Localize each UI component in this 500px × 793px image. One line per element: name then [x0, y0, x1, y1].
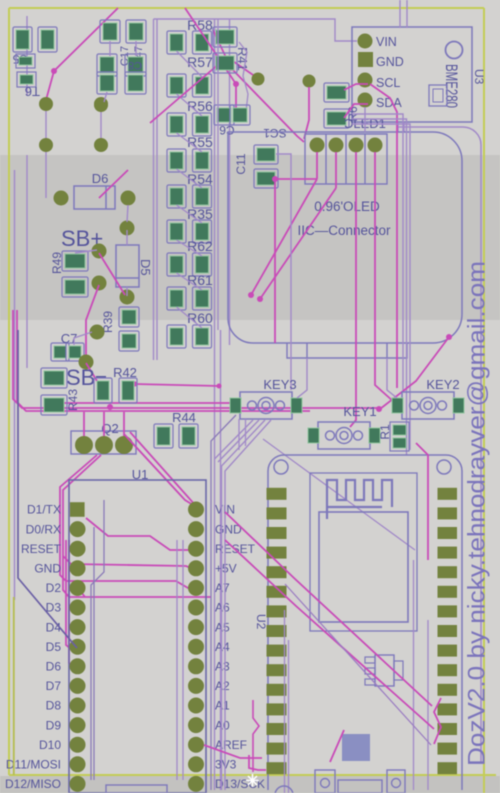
svg-text:R54: R54 — [187, 171, 213, 187]
wire — [335, 152, 337, 188]
wire — [45, 402, 230, 404]
wire — [63, 455, 211, 597]
svg-text:R61: R61 — [187, 272, 213, 288]
wire — [316, 152, 318, 179]
pin pad right D13/SCK — [188, 776, 204, 792]
board edge right — [483, 8, 485, 793]
pin GND — [358, 52, 404, 69]
resistor R1 — [378, 422, 409, 451]
wire — [275, 178, 317, 180]
wire — [260, 188, 336, 299]
svg-text:VIN: VIN — [376, 35, 397, 49]
capacitor C8 — [97, 54, 146, 94]
wire — [86, 285, 99, 360]
resistor R42 — [94, 365, 137, 403]
pin pad U2 left — [267, 527, 287, 539]
svg-text:R44: R44 — [172, 410, 196, 425]
connector hole — [387, 770, 405, 793]
svg-text:D6: D6 — [46, 660, 62, 674]
wire — [177, 133, 203, 152]
test point T6 — [16, 54, 40, 99]
pin pad U2 left — [267, 566, 287, 578]
wire — [330, 730, 344, 762]
pushbutton KEY2 — [392, 377, 464, 419]
pin 1 D1/TX pad — [70, 502, 85, 517]
module U2 outline — [268, 455, 462, 790]
svg-text:3V3: 3V3 — [215, 758, 237, 772]
via — [92, 244, 107, 259]
connector ISP outline — [106, 785, 167, 793]
wire — [213, 30, 304, 142]
pin pad U2 left — [267, 684, 287, 696]
svg-text:A4: A4 — [215, 640, 230, 654]
wire — [204, 745, 262, 758]
pin pad U2 left — [267, 664, 287, 676]
via — [54, 191, 69, 206]
node — [228, 65, 234, 71]
wire — [225, 540, 434, 729]
resistor R55 — [167, 134, 213, 172]
svg-text:KEY2: KEY2 — [426, 377, 459, 392]
wire — [344, 84, 368, 90]
pin pad left D5 — [70, 639, 86, 655]
wire — [74, 332, 92, 345]
wire — [177, 240, 203, 256]
svg-text:KEY1: KEY1 — [343, 404, 376, 419]
svg-text:RESET: RESET — [21, 542, 62, 556]
svg-text:D1/TX: D1/TX — [27, 503, 61, 517]
pin 3 — [349, 138, 364, 153]
wire — [222, 420, 266, 790]
pin 4 — [368, 138, 383, 153]
pin pad U2 right — [438, 664, 458, 676]
svg-text:C8: C8 — [128, 59, 142, 71]
pin pad right RESET — [188, 541, 204, 557]
mounting hole — [446, 42, 463, 59]
svg-text:+5V: +5V — [215, 562, 237, 576]
pin pad left D2 — [70, 580, 86, 596]
node — [257, 296, 263, 302]
svg-text:T6: T6 — [25, 84, 40, 99]
pin pad U2 left — [267, 723, 287, 735]
pin pad U2 left — [267, 762, 287, 774]
svg-text:R55: R55 — [187, 134, 213, 150]
ESP antenna — [327, 480, 392, 519]
wire — [413, 560, 415, 790]
wire — [177, 205, 203, 223]
svg-text:R41: R41 — [235, 47, 250, 71]
via — [120, 221, 135, 236]
resistor R44 — [154, 410, 198, 448]
wire — [182, 540, 184, 780]
pin pad U2 right — [438, 488, 458, 500]
capacitor C5 — [12, 27, 57, 66]
svg-text:R62: R62 — [187, 238, 213, 254]
wire — [403, 122, 405, 132]
wire — [263, 439, 415, 550]
wire — [352, 114, 403, 390]
pin pad U2 left — [267, 645, 287, 657]
wire — [352, 119, 407, 455]
pin pad U2 right — [438, 743, 458, 755]
svg-text:DozV2.0 by nicky.tehnodrayver: DozV2.0 by nicky.tehnodrayver@gmail.com — [464, 261, 491, 766]
wire — [399, 0, 401, 28]
svg-text:A5: A5 — [215, 620, 230, 634]
pin pad right A0 — [188, 717, 204, 733]
wire — [185, 8, 236, 122]
pin pad left D7 — [70, 678, 86, 694]
resistor R56 — [167, 98, 213, 136]
svg-text:C11: C11 — [234, 153, 248, 174]
pushbutton KEY3 — [230, 377, 302, 419]
wire — [13, 597, 15, 775]
wire — [109, 41, 111, 56]
svg-text:R43: R43 — [66, 389, 80, 411]
wire — [218, 420, 259, 462]
wire — [177, 51, 203, 77]
wire — [135, 41, 137, 56]
pin pad right A3 — [188, 658, 204, 674]
diode D6 — [74, 171, 115, 209]
wire — [229, 19, 231, 345]
wire — [350, 152, 356, 427]
pin pad left D0/RX — [70, 521, 86, 537]
wire — [126, 230, 128, 245]
wire — [225, 512, 432, 706]
module U1 outline — [69, 480, 206, 793]
pin pad U2 left — [267, 625, 287, 637]
wire — [220, 330, 222, 790]
via — [120, 290, 135, 305]
wire — [126, 287, 128, 296]
wire — [103, 412, 105, 436]
pin pad U2 left — [267, 488, 287, 500]
wire — [135, 384, 219, 386]
pin pad right A4 — [188, 639, 204, 655]
pin pad left D8 — [70, 698, 86, 714]
svg-text:D2: D2 — [46, 581, 62, 595]
capacitor C7 — [51, 331, 84, 361]
pin pad U2 left — [267, 743, 287, 755]
wire — [13, 310, 378, 408]
pin 1 — [310, 138, 325, 153]
pushbutton KEY1 — [308, 404, 380, 449]
svg-text:C7: C7 — [61, 331, 78, 346]
wire — [127, 205, 128, 222]
wire — [239, 42, 248, 120]
connector hole — [275, 786, 293, 793]
wire — [344, 104, 368, 118]
svg-text:D13/SCK: D13/SCK — [215, 777, 265, 791]
pin pad U2 right — [438, 625, 458, 637]
wire — [297, 358, 307, 398]
pin pad right A2 — [188, 678, 204, 694]
svg-text:R57: R57 — [187, 54, 213, 70]
wire — [86, 363, 97, 381]
resistor R58 — [167, 17, 213, 54]
wire — [352, 124, 410, 450]
component footprint — [429, 85, 447, 106]
pin pad U2 left — [267, 507, 287, 519]
wire — [46, 8, 118, 100]
wire — [251, 179, 317, 295]
pin pad left D9 — [70, 717, 86, 733]
wire — [63, 556, 193, 569]
pin pad U2 right — [438, 684, 458, 696]
wire — [154, 19, 358, 41]
resistor R39 — [101, 307, 139, 351]
wire — [284, 610, 286, 793]
via — [94, 98, 108, 112]
battery holder B1 pads — [39, 97, 108, 152]
wire — [14, 170, 16, 600]
pin pad U2 right — [438, 762, 458, 774]
pin pad left GND — [70, 560, 86, 576]
svg-text:KEY3: KEY3 — [263, 377, 296, 392]
wire — [249, 755, 266, 770]
wire — [17, 310, 310, 411]
wire — [177, 307, 203, 328]
resistor R60 — [167, 310, 213, 348]
via — [92, 276, 107, 291]
resistor R41 — [213, 27, 250, 73]
pin pad left RESET — [70, 541, 86, 557]
wire — [99, 170, 128, 198]
svg-text:D7: D7 — [46, 679, 62, 693]
wire — [156, 19, 158, 360]
pin pad U2 left — [267, 703, 287, 715]
pin pad right A5 — [188, 619, 204, 635]
pin pad right 3V3 — [188, 756, 204, 772]
diode D5 — [116, 245, 153, 287]
pin SCL — [358, 73, 401, 91]
node — [133, 382, 138, 387]
wire — [18, 330, 77, 648]
pin pad U2 right — [438, 703, 458, 715]
wire — [386, 343, 388, 358]
board edge bottom — [9, 774, 496, 776]
wire — [177, 169, 203, 188]
wire — [66, 540, 72, 650]
svg-text:SC1: SC1 — [263, 126, 287, 140]
wire — [86, 518, 192, 550]
resistor R63 — [324, 83, 360, 128]
svg-text:R49: R49 — [50, 252, 64, 274]
wire — [380, 337, 449, 409]
node — [233, 81, 239, 87]
wire — [285, 584, 431, 745]
svg-text:R60: R60 — [187, 310, 213, 326]
node — [217, 384, 222, 389]
wire — [215, 420, 254, 459]
via — [121, 191, 136, 206]
svg-text:U1: U1 — [132, 467, 149, 482]
wire — [123, 412, 125, 436]
pin pad U2 left — [267, 586, 287, 598]
mounting hole — [274, 460, 288, 474]
pin pad U2 right — [438, 723, 458, 735]
svg-text:A3: A3 — [215, 660, 230, 674]
pin pad right A6 — [188, 600, 204, 616]
wire — [211, 415, 236, 790]
resistor R54 — [167, 171, 213, 208]
pin pad U2 right — [438, 507, 458, 519]
node — [51, 68, 57, 74]
svg-text:D5: D5 — [138, 259, 153, 276]
svg-text:A6: A6 — [215, 601, 230, 615]
wire — [304, 87, 309, 139]
svg-text:A7: A7 — [215, 581, 230, 595]
mounting hole — [437, 460, 451, 474]
wire — [306, 343, 308, 358]
wire — [99, 253, 125, 295]
board edge top — [9, 7, 484, 9]
wire — [45, 104, 47, 198]
pin VIN — [358, 34, 397, 50]
resistor R62 — [167, 238, 213, 276]
wire — [104, 92, 107, 102]
wire — [225, 420, 271, 790]
svg-text:R1: R1 — [378, 424, 392, 440]
wire — [416, 443, 428, 560]
wire — [406, 0, 408, 28]
wire — [176, 540, 178, 780]
wire — [177, 273, 203, 290]
svg-text:D9: D9 — [46, 718, 62, 732]
wire — [375, 152, 394, 402]
wire — [214, 19, 216, 790]
via — [79, 355, 94, 370]
pin pad U2 right — [438, 547, 458, 559]
pin pad right A7 — [188, 580, 204, 596]
wire — [93, 527, 95, 780]
pin pad left D3 — [70, 600, 86, 616]
wire — [78, 588, 85, 597]
wire — [427, 620, 429, 790]
transistor Q1 outline — [365, 655, 403, 686]
svg-text:A1: A1 — [215, 699, 230, 713]
wire — [398, 127, 481, 763]
wire — [124, 434, 193, 505]
svg-text:BME280: BME280 — [442, 64, 461, 108]
wire — [177, 94, 203, 116]
wire — [26, 155, 28, 368]
pin pad U2 right — [438, 586, 458, 598]
copper zone — [342, 734, 370, 761]
wire — [397, 122, 399, 132]
pin pad left D12/MISO — [70, 776, 86, 792]
OLED notch — [287, 343, 407, 358]
board edge left — [8, 8, 10, 775]
wire — [75, 250, 97, 253]
wire — [274, 179, 276, 343]
node — [446, 334, 452, 340]
wire — [370, 84, 397, 388]
pin pad U2 right — [438, 566, 458, 578]
pin pad right VIN — [188, 502, 204, 518]
wire — [245, 419, 247, 446]
selection marker — [246, 774, 259, 787]
transistor Q2 — [71, 421, 136, 454]
svg-text:SB: SB — [66, 365, 95, 390]
pin pad U2 left — [267, 605, 287, 617]
wire — [276, 154, 291, 390]
svg-text:U2: U2 — [254, 614, 268, 630]
wire — [91, 500, 104, 780]
pin pad U2 right — [438, 527, 458, 539]
resistor R49 — [50, 251, 88, 297]
pin pad right AREF — [188, 737, 204, 753]
via — [90, 325, 105, 340]
ESP module outline — [310, 473, 417, 631]
svg-text:D5: D5 — [46, 640, 62, 654]
capacitor C6 — [214, 105, 250, 137]
pin pad left D6 — [70, 658, 86, 674]
connector hole — [315, 770, 335, 793]
pin pad left D11/MOSI — [70, 756, 86, 772]
resistor R35 — [167, 206, 213, 243]
wire — [83, 412, 85, 436]
resistor R47 — [133, 46, 145, 66]
svg-text:U3: U3 — [472, 69, 486, 85]
svg-text:GND: GND — [376, 55, 404, 69]
pin pad U2 left — [267, 547, 287, 559]
svg-text:D8: D8 — [46, 699, 62, 713]
pin pad U2 right — [438, 645, 458, 657]
wire — [238, 419, 240, 450]
resistor R61 — [167, 272, 213, 310]
wire — [130, 432, 196, 506]
node — [272, 176, 278, 182]
svg-text:D0/RX: D0/RX — [26, 522, 61, 536]
wire — [364, 107, 366, 132]
resistor R57 — [167, 54, 213, 97]
wire — [434, 698, 441, 744]
pin pad left D4 — [70, 619, 86, 635]
via — [252, 73, 265, 86]
pin pad right GND — [188, 521, 204, 537]
connector J1 frame — [305, 134, 387, 184]
wire — [387, 358, 397, 398]
wire — [26, 16, 28, 95]
wire — [150, 57, 256, 123]
wire — [288, 640, 290, 793]
node — [248, 292, 254, 298]
svg-text:C6: C6 — [219, 123, 235, 137]
capacitor C11 — [234, 145, 278, 188]
resistor R43 — [41, 368, 80, 415]
svg-text:A0: A0 — [215, 718, 230, 732]
capacitor C17 — [100, 20, 146, 66]
wire — [253, 700, 259, 772]
node — [107, 404, 113, 410]
wire — [100, 111, 102, 138]
pin 2 — [329, 138, 344, 153]
pin pad right +5V — [188, 560, 204, 576]
svg-text:GND: GND — [34, 562, 61, 576]
pin SDA — [358, 93, 403, 111]
svg-text:R42: R42 — [113, 365, 137, 380]
svg-text:D12/MISO: D12/MISO — [5, 777, 61, 791]
svg-text:SCL: SCL — [376, 76, 400, 90]
pin pad U2 right — [438, 605, 458, 617]
wire — [69, 540, 74, 667]
via — [303, 75, 316, 88]
connector U3 outline — [352, 27, 472, 122]
wire — [217, 19, 219, 330]
svg-text:R35: R35 — [187, 206, 213, 222]
pin pad left D10 — [70, 737, 86, 753]
